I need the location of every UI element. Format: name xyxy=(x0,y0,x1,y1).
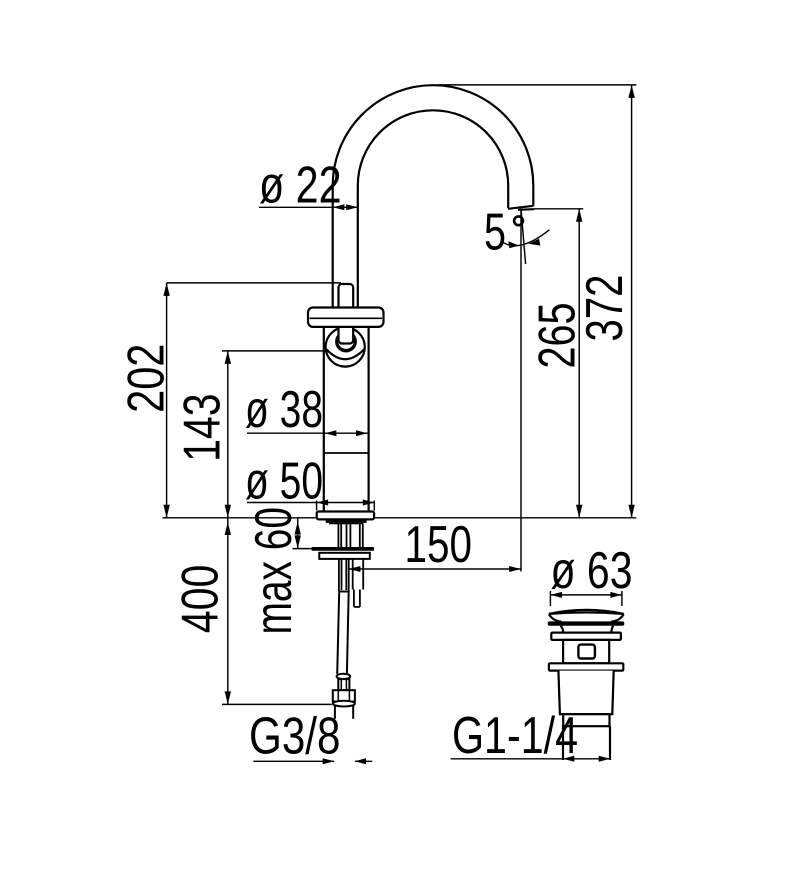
svg-text:G1-1/4: G1-1/4 xyxy=(452,707,578,765)
svg-text:ø 38: ø 38 xyxy=(245,381,323,439)
svg-text:400: 400 xyxy=(172,565,230,634)
svg-text:5: 5 xyxy=(484,203,506,261)
svg-text:150: 150 xyxy=(405,516,473,574)
svg-text:ø 63: ø 63 xyxy=(551,542,633,600)
svg-text:202: 202 xyxy=(118,344,176,413)
svg-text:ø 50: ø 50 xyxy=(245,453,323,511)
svg-text:ø 22: ø 22 xyxy=(259,157,342,215)
svg-text:max 60: max 60 xyxy=(245,507,303,635)
svg-text:265: 265 xyxy=(529,303,587,369)
svg-text:G3/8: G3/8 xyxy=(249,708,341,766)
svg-text:143: 143 xyxy=(174,393,232,462)
